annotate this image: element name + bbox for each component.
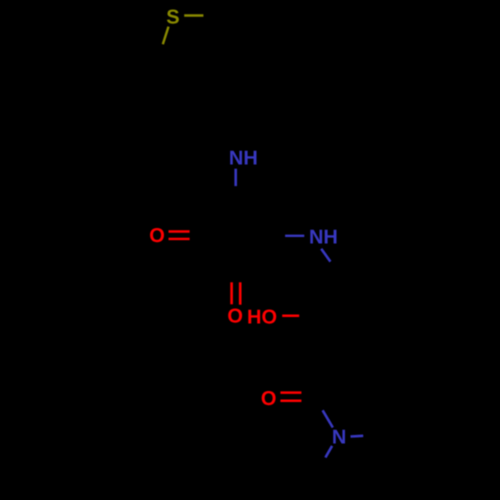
- svg-text:S: S: [166, 6, 179, 28]
- svg-text:NH: NH: [309, 227, 338, 249]
- svg-text:HO: HO: [247, 306, 277, 328]
- svg-text:NH: NH: [229, 147, 258, 169]
- svg-text:O: O: [261, 388, 277, 410]
- svg-text:N: N: [332, 427, 346, 449]
- svg-text:O: O: [149, 225, 165, 247]
- svg-text:O: O: [227, 305, 243, 327]
